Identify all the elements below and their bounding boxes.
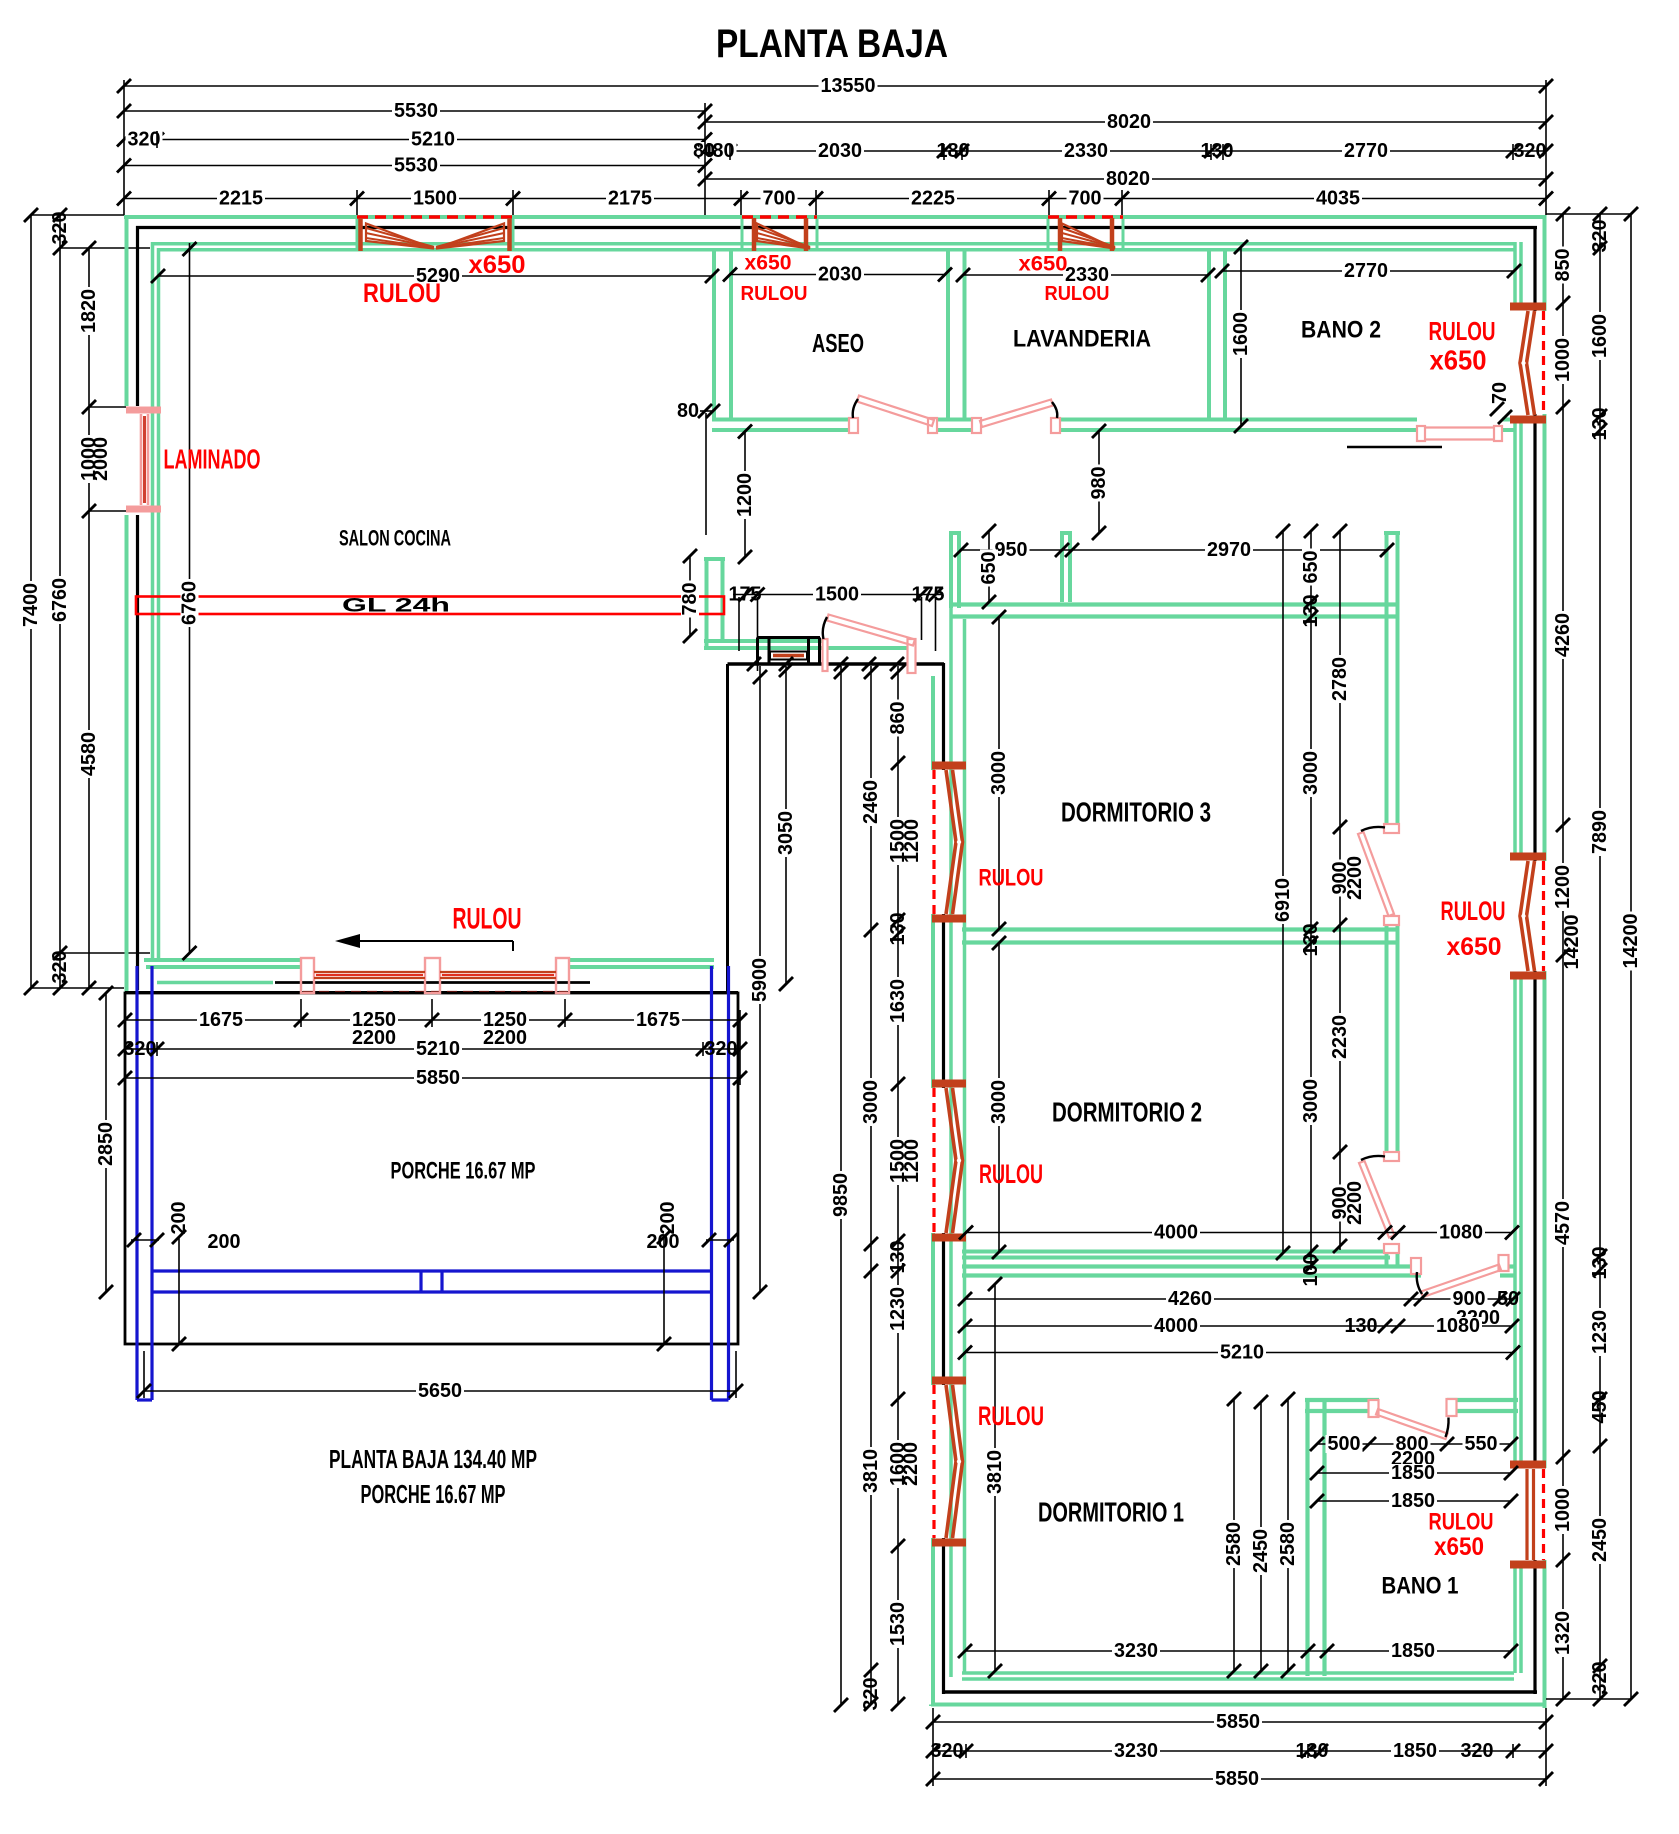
dim 650 left hall [978,524,1000,609]
svg-text:2225: 2225 [911,188,955,210]
wall top interior green lines [152,244,1514,250]
svg-text:4035: 4035 [1316,188,1360,210]
left chains connector lines [31,215,150,988]
wall corridor top rooms bottom [712,420,1514,431]
label x650 lavanderia window [1019,253,1068,276]
svg-text:RULOU: RULOU [1045,283,1110,305]
wall hall stub A [949,533,961,608]
dim 5900 chain [749,666,771,1299]
dim chain 860 1500 130 1630 1500 130 1230 1600 1530 [887,665,909,1711]
dim 3810 dorm1 interior [984,1277,1006,1678]
svg-text:2580: 2580 [1223,1522,1245,1566]
svg-text:1850: 1850 [1393,1740,1437,1762]
svg-text:x650: x650 [1447,933,1502,961]
label PORCHE 16.67 MP [391,1158,536,1185]
svg-text:80: 80 [677,400,699,422]
window dorm2 wing-left RULOU [932,1084,966,1238]
svg-text:2200: 2200 [1344,856,1366,900]
wall top exterior green outer [124,215,1546,219]
svg-text:4000: 4000 [1154,1315,1198,1337]
dim 4260 900 50 row [958,1288,1520,1310]
label SALON COCINA [339,526,451,551]
window dorm1 wing-left RULOU [932,1381,966,1543]
svg-text:13550: 13550 [821,75,876,97]
dim 500 800 550 bano1 row [1310,1433,1518,1455]
svg-text:RULOU: RULOU [979,865,1044,892]
svg-text:2030: 2030 [818,264,862,286]
dim 1820 1000 4580 left chain [78,241,100,995]
label RULOU aseo window [741,283,808,305]
label BANO 2 [1301,317,1381,344]
label RULOU salon arrow [453,903,522,936]
svg-text:130: 130 [1300,595,1322,628]
svg-text:5850: 5850 [1216,1711,1260,1733]
label RULOU lavanderia window [1045,283,1110,305]
title PLANTA BAJA [716,22,948,66]
dim right chain B 320 1600 130 7890 130 1230 450 2450 320 [1589,207,1611,1706]
svg-text:RULOU: RULOU [363,278,441,308]
dim 2200 bano1 label [1391,1448,1435,1470]
svg-text:6910: 6910 [1272,878,1294,922]
svg-text:175: 175 [912,584,945,606]
door dorm2 [1359,1152,1399,1253]
label RULOU bano1 window [1429,1509,1494,1536]
svg-text:4580: 4580 [78,732,100,776]
svg-text:320: 320 [1514,140,1547,162]
dim 8020 row2 right [698,111,1553,133]
svg-text:LAMINADO: LAMINADO [164,444,261,475]
wall right exterior black [1533,226,1536,1694]
svg-text:50: 50 [1497,1288,1519,1310]
top window green jambs [357,217,1123,251]
wall salon bottom interior greens [144,960,714,967]
svg-text:1600: 1600 [1589,314,1611,358]
dim 320 5210 row3 [117,129,712,151]
svg-text:7890: 7890 [1589,810,1611,854]
svg-text:2030: 2030 [818,140,862,162]
svg-text:1630: 1630 [887,979,909,1023]
label DORMITORIO 1 [1038,1497,1184,1528]
svg-text:130: 130 [887,1241,909,1274]
dim 320 3230 130 1850 320 wing row2 [926,1740,1553,1762]
label DORMITORIO 3 [1061,797,1211,828]
wall entry bottom greens [704,641,915,648]
svg-text:2580: 2580 [1277,1522,1299,1566]
svg-text:2330: 2330 [1064,140,1108,162]
threshold line under bano2 opening [1347,446,1442,449]
svg-text:9850: 9850 [830,1173,852,1217]
svg-text:DORMITORIO 2: DORMITORIO 2 [1052,1097,1202,1128]
dim 70 bano2 niche [1489,382,1512,424]
svg-text:1850: 1850 [1391,1462,1435,1484]
svg-text:100: 100 [1300,1254,1322,1287]
label LAVANDERIA [1013,326,1151,353]
wall wing bottom black [944,1690,1538,1693]
dim 13550 top row [117,75,1553,97]
wall corridor west [1384,533,1400,1266]
label RULOU salon window [363,278,441,308]
wall salon bottom mid line [157,981,590,985]
dim 3230 1850 interior bottom row [958,1640,1518,1662]
svg-text:3000: 3000 [860,1080,882,1124]
svg-text:5850: 5850 [416,1067,460,1089]
window bano2 right RULOU x650 [1510,307,1546,420]
svg-text:BANO 2: BANO 2 [1301,317,1381,344]
label x650 aseo window [745,252,792,275]
porch blue post right [712,966,729,1400]
label RULOU hall window [979,865,1044,892]
svg-text:650: 650 [978,552,1000,585]
svg-text:700: 700 [1069,188,1102,210]
wall left exterior green outer [125,215,129,993]
svg-text:320: 320 [1589,1662,1611,1695]
dim 5290 salon [151,265,719,287]
window hall wing-left RULOU [932,766,966,919]
label LAMINADO left window [164,444,261,475]
svg-text:2460: 2460 [860,780,882,824]
wall right exterior green outer [1543,215,1547,1708]
dim 1675 1250 1250 1675 porch row [118,1009,747,1031]
dim 6760 salon interior [179,242,201,960]
wall bano1 top [1305,1400,1518,1411]
wall left exterior black [136,226,139,990]
dim right chain A 850 1000 4260 1200 4570 1000 1320 [1552,207,1574,1706]
svg-text:1230: 1230 [887,1287,909,1331]
dim 2850 porch left [95,986,117,1299]
svg-text:320: 320 [128,129,161,151]
hall bottom black line [728,664,945,993]
label x650 bano1 window [1434,1533,1484,1561]
svg-text:2770: 2770 [1344,260,1388,282]
window laminado left wall [126,410,161,509]
dim 5850 porch row [118,1067,747,1089]
dim 5850 wing row3 [926,1768,1553,1790]
wall dorm2 bottom partition [962,1252,1390,1258]
svg-text:175: 175 [729,584,762,606]
svg-text:1200: 1200 [901,819,923,863]
wall wing-left green outer [931,676,935,1706]
svg-text:3230: 3230 [1114,1740,1158,1762]
svg-text:5650: 5650 [418,1380,462,1402]
dim 5530 row2 [117,100,712,122]
svg-text:5850: 5850 [1215,1768,1259,1790]
svg-text:1200: 1200 [901,1139,923,1183]
wall wing-left interior greens [951,533,965,1677]
svg-text:x650: x650 [469,251,526,279]
svg-text:2000: 2000 [90,437,112,481]
svg-text:BANO 1: BANO 1 [1382,1573,1459,1600]
svg-text:x650: x650 [1019,253,1068,276]
window lavanderia top RULOU x650 [1048,217,1123,251]
dim 1600 bano2 [1230,240,1252,433]
svg-text:5210: 5210 [1220,1342,1264,1364]
svg-text:200: 200 [168,1202,190,1235]
svg-text:2780: 2780 [1329,657,1351,701]
svg-text:3810: 3810 [860,1449,882,1493]
svg-text:550: 550 [1465,1433,1498,1455]
svg-text:6760: 6760 [179,581,201,625]
wall wing bottom interior greens [962,1673,1514,1679]
svg-text:1675: 1675 [199,1009,243,1031]
dim 2450 dorm1 [1250,1395,1272,1678]
dim 5210 row [958,1342,1520,1364]
dim 80 hall [677,400,720,535]
wall bano1 west [1308,1400,1325,1676]
svg-text:2200: 2200 [352,1027,396,1049]
dim 2770 bano2 [1215,260,1521,282]
svg-text:450: 450 [1589,1391,1611,1424]
svg-text:PLANTA BAJA: PLANTA BAJA [716,22,948,66]
dim row3 right 80 480 2030 180 2330 130 2770 320 [693,140,1553,162]
svg-text:1530: 1530 [887,1602,909,1646]
svg-text:130: 130 [1201,140,1234,162]
dim 14200 label A [1561,915,1583,970]
dim row5 2215 1500 2175 700 2225 700 4035 [117,188,1553,210]
wall aseo-lavanderia partition [948,248,965,421]
svg-text:2175: 2175 [608,188,652,210]
dim chain 650 130 3000 130 3000 100 dorm east [1300,524,1322,1287]
porch blue post left [137,966,152,1400]
door dorm3 [1358,824,1399,925]
svg-text:2200: 2200 [1344,1181,1366,1225]
svg-text:320: 320 [931,1740,964,1762]
svg-text:1000: 1000 [1552,1488,1574,1532]
dim 5850 wing row1 [926,1711,1553,1733]
svg-text:2770: 2770 [1344,140,1388,162]
dim 980 hall [1088,424,1110,540]
svg-text:2215: 2215 [219,188,263,210]
dim 8020 row4 right [698,168,1553,190]
svg-text:PORCHE 16.67 MP: PORCHE 16.67 MP [361,1479,506,1509]
svg-text:1230: 1230 [1589,1310,1611,1354]
label RULOU dorm1 window [978,1401,1044,1431]
svg-text:180: 180 [937,140,970,162]
dim 1200 hall [734,425,756,565]
svg-text:1320: 1320 [1552,1611,1574,1655]
svg-text:850: 850 [1552,249,1574,282]
dim 900 2200 dorm3 door [1329,856,1366,900]
label x650 bano2 window [1430,345,1487,376]
svg-text:320: 320 [1589,220,1611,253]
wing bottom extension lines [933,1708,1546,1786]
window corridor right RULOU x650 [1510,857,1546,976]
svg-text:860: 860 [887,702,909,735]
wall wing-left black [942,663,945,1694]
svg-text:500: 500 [1328,1433,1361,1455]
label RULOU bano2 window [1429,316,1496,346]
door aseo [849,396,937,434]
dim 200 porch right pair [647,1202,739,1352]
wall wing bottom green outer [931,1705,1546,1707]
dim 5530 row4 [117,155,712,177]
dim 5650 porch bottom [137,1380,743,1402]
svg-text:14200: 14200 [1561,915,1583,970]
svg-text:14200: 14200 [1620,914,1642,969]
sliding door dashed maroon line [303,991,567,994]
svg-text:3810: 3810 [984,1450,1006,1494]
dim 2000 label [90,437,112,481]
svg-text:2450: 2450 [1250,1529,1272,1573]
svg-text:RULOU: RULOU [979,1159,1043,1189]
wall porch top black line [125,991,738,994]
svg-text:130: 130 [887,913,909,946]
door corridor-south to dorm1 [1411,1255,1509,1297]
svg-text:130: 130 [1296,1740,1329,1762]
label DORMITORIO 2 [1052,1097,1202,1128]
svg-text:SALON COCINA: SALON COCINA [339,526,451,551]
svg-text:6760: 6760 [49,578,71,622]
svg-text:1500: 1500 [413,188,457,210]
dim 950 2970 hall top [954,539,1394,561]
svg-text:320: 320 [1461,1740,1494,1762]
wall salon-aseo partition [714,248,731,421]
svg-text:3230: 3230 [1114,1640,1158,1662]
svg-text:5530: 5530 [394,100,438,122]
dim 320 6760 320 left chain [49,208,71,995]
svg-text:3000: 3000 [1300,751,1322,795]
label RULOU dorm2 window [979,1159,1043,1189]
svg-text:ASEO: ASEO [812,328,864,358]
svg-text:RULOU: RULOU [1429,1509,1494,1536]
svg-text:5900: 5900 [749,958,771,1002]
dim 1500 entry with 175 stubs [729,584,945,672]
svg-text:x650: x650 [745,252,792,275]
svg-text:8020: 8020 [1107,111,1151,133]
dim 200 porch left pair [127,1202,241,1352]
top dim extension lines [124,80,1546,217]
svg-text:RULOU: RULOU [1429,316,1496,346]
svg-text:1200: 1200 [734,473,756,517]
svg-text:200: 200 [647,1231,680,1253]
label ASEO [812,328,864,358]
svg-text:LAVANDERIA: LAVANDERIA [1013,326,1151,353]
svg-text:1600: 1600 [1230,312,1252,356]
svg-text:DORMITORIO 1: DORMITORIO 1 [1038,1497,1184,1528]
dim 9850 chain [830,665,852,1712]
svg-text:5210: 5210 [416,1038,460,1060]
label PORCHE 16.67 MP bottom [361,1479,506,1509]
svg-text:2200: 2200 [900,1442,922,1486]
svg-text:5210: 5210 [411,129,455,151]
svg-text:RULOU: RULOU [978,1401,1044,1431]
wall dorm3-dorm2 partition [962,930,1398,943]
wall top exterior black [136,226,1537,229]
dim 900 2200 dorm2 door [1329,1181,1366,1225]
label RULOU corridor window [1441,896,1506,926]
svg-text:1000: 1000 [1552,338,1574,382]
svg-text:200: 200 [657,1202,679,1235]
svg-text:320: 320 [705,1038,738,1060]
svg-text:4000: 4000 [1154,1222,1198,1244]
dim 1850 bano1 b [1310,1490,1518,1512]
porch black outline [125,993,738,1344]
svg-text:650: 650 [1300,551,1322,584]
svg-text:2970: 2970 [1207,539,1251,561]
dim 2580 dorm1 b [1277,1392,1299,1678]
svg-text:980: 980 [1088,467,1110,500]
svg-text:8020: 8020 [1106,168,1150,190]
svg-text:3000: 3000 [1300,1079,1322,1123]
svg-text:2450: 2450 [1589,1518,1611,1562]
dim 6910 wing [1272,524,1294,1260]
door bano1 [1369,1399,1457,1439]
svg-text:320: 320 [124,1038,157,1060]
right chains connectors [1546,214,1631,1699]
dim 4000 130 1080 row [958,1315,1519,1337]
dim chain 2780 2230 doors east [1329,524,1351,1253]
door lavanderia [972,400,1060,434]
svg-text:1500: 1500 [815,584,859,606]
dim 1850 bano1 a [1310,1462,1518,1484]
label x650 corridor window [1447,933,1502,961]
svg-text:PORCHE 16.67 MP: PORCHE 16.67 MP [391,1158,536,1185]
svg-text:4260: 4260 [1168,1288,1212,1310]
svg-text:3050: 3050 [775,811,797,855]
porch dim extension lines [125,999,740,1398]
svg-text:130: 130 [1345,1315,1378,1337]
cased opening bano2 [1417,426,1502,441]
window aseo top RULOU x650 [742,217,817,251]
svg-text:1080: 1080 [1439,1222,1483,1244]
porch blue beam [152,1271,711,1292]
entry sliding pocket black box [758,638,821,665]
dim chain 2460 3000 3810 320 [860,665,882,1711]
svg-text:1200: 1200 [1552,865,1574,909]
svg-text:PLANTA BAJA 134.40 MP: PLANTA BAJA 134.40 MP [329,1444,537,1474]
svg-text:2200: 2200 [483,1027,527,1049]
hall chain ticks on black line [747,657,904,671]
svg-text:DORMITORIO 3: DORMITORIO 3 [1061,797,1211,828]
dim 780 entry stub [679,549,701,643]
svg-text:1820: 1820 [78,289,100,333]
dim 3000 dorm2 [988,936,1010,1259]
svg-text:3000: 3000 [988,751,1010,795]
door entry [823,615,916,674]
svg-text:3000: 3000 [988,1080,1010,1124]
label x650 salon window [469,251,526,279]
svg-text:x650: x650 [1430,345,1487,376]
wall lavanderia-bano2 partition [1209,248,1225,421]
label BANO 1 [1382,1573,1459,1600]
rulou arrow salon [335,934,513,951]
svg-text:x650: x650 [1434,1533,1484,1561]
dim 320 5210 320 porch row [118,1038,747,1060]
svg-text:5530: 5530 [394,155,438,177]
svg-text:320: 320 [860,1678,882,1711]
svg-text:1080: 1080 [1436,1315,1480,1337]
svg-text:130: 130 [1300,924,1322,957]
svg-text:2850: 2850 [95,1122,117,1166]
dim 7400 left chain [20,208,42,995]
svg-text:4570: 4570 [1552,1201,1574,1245]
wall corridor south [962,1267,1514,1276]
wall right interior green lines [1515,242,1521,1673]
red box GL 24h [136,596,724,617]
svg-text:1850: 1850 [1391,1640,1435,1662]
svg-text:1675: 1675 [636,1009,680,1031]
dim 2330 lavanderia [956,264,1215,286]
svg-text:7400: 7400 [20,583,42,627]
svg-text:200: 200 [208,1231,241,1253]
svg-text:130: 130 [1589,408,1611,441]
svg-text:RULOU: RULOU [741,283,808,305]
wall left interior green lines [153,242,159,962]
wall dorm3 top partition [951,605,1399,617]
dim 3000 dorm3 [988,610,1010,936]
svg-text:130: 130 [1589,1247,1611,1280]
wall stub left of entry [704,558,725,648]
dim overlapped 1200 labels windows [900,819,923,1486]
